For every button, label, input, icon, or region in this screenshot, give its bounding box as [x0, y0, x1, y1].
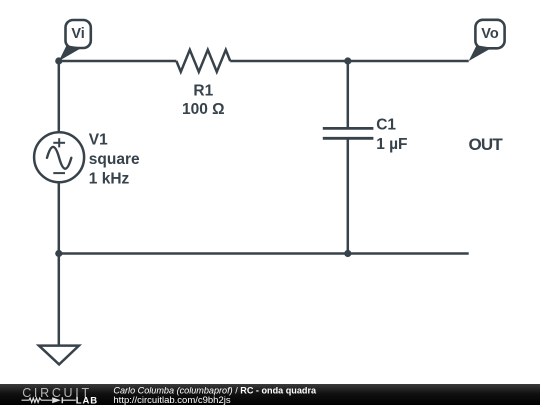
label V1	[89, 132, 140, 188]
wire	[59, 252, 469, 255]
junction bottom of C1	[344, 250, 351, 257]
svg-text:LAB: LAB	[76, 395, 98, 405]
svg-text:100 Ω: 100 Ω	[182, 101, 225, 118]
junction bottom left	[55, 250, 62, 257]
wire	[58, 254, 61, 346]
resistor R1	[176, 50, 230, 72]
capacitor C1	[323, 128, 374, 138]
svg-text:OUT: OUT	[469, 135, 504, 154]
ground	[39, 346, 79, 365]
svg-text:C1: C1	[376, 117, 396, 134]
logo LAB	[76, 395, 98, 405]
node flag Vi	[59, 20, 91, 61]
voltage source V1	[34, 132, 84, 182]
wire	[58, 182, 61, 254]
junction node Vi	[55, 57, 62, 64]
footer credit line	[113, 386, 317, 405]
wire	[59, 60, 177, 63]
wire	[58, 61, 61, 134]
svg-text:Vo: Vo	[481, 26, 499, 42]
footer bar	[0, 384, 540, 405]
svg-text:1 kHz: 1 kHz	[89, 170, 130, 187]
svg-text:http://circuitlab.com/c9bh2js: http://circuitlab.com/c9bh2js	[113, 395, 230, 405]
svg-text:Vi: Vi	[71, 26, 84, 42]
logo squiggle and diode	[22, 397, 76, 403]
label R1	[182, 83, 225, 118]
label C1	[376, 117, 407, 154]
logo CIRCUIT	[22, 386, 92, 400]
junction top of C1	[344, 57, 351, 64]
svg-text:1 µF: 1 µF	[376, 136, 407, 153]
node flag Vo	[469, 20, 505, 61]
wire	[347, 138, 350, 253]
wire	[347, 61, 350, 128]
net label OUT	[469, 135, 504, 154]
svg-text:square: square	[89, 151, 140, 168]
svg-text:R1: R1	[193, 83, 213, 100]
svg-text:V1: V1	[89, 132, 108, 149]
wire	[230, 60, 469, 63]
